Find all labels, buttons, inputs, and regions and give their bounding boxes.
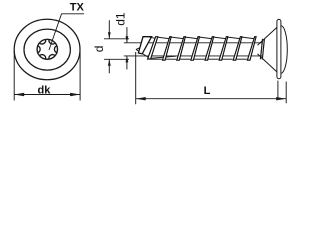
svg-text:L: L bbox=[204, 85, 211, 97]
svg-text:d1: d1 bbox=[113, 12, 127, 26]
svg-text:d: d bbox=[92, 46, 106, 53]
svg-text:TX: TX bbox=[70, 1, 85, 13]
svg-text:dk: dk bbox=[38, 85, 52, 97]
